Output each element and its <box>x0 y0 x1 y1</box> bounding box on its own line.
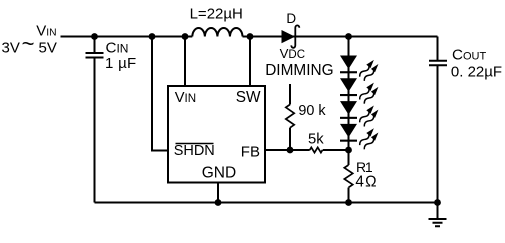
junction node VIN pin <box>182 33 189 40</box>
wire top rail left <box>61 36 193 38</box>
label 5k <box>308 132 324 148</box>
label D <box>286 11 296 26</box>
wire SHDN branch <box>152 37 168 151</box>
inductor L1 <box>192 28 242 36</box>
junction node SHDN branch <box>149 33 156 40</box>
wire VIN pin <box>184 37 186 87</box>
svg-text:GND: GND <box>202 165 236 182</box>
wire R1 top lead <box>348 150 350 165</box>
label R1 <box>356 159 373 175</box>
svg-text:4Ω: 4Ω <box>355 173 376 190</box>
svg-text:5V: 5V <box>39 40 57 57</box>
junction node SW pin <box>247 33 254 40</box>
label L=22uH <box>190 5 243 22</box>
IC U1 box <box>168 86 265 183</box>
wire top rail right <box>243 36 438 38</box>
label GND <box>202 165 236 182</box>
wire SW pin <box>249 37 251 87</box>
label 4ohm <box>355 173 376 190</box>
svg-text:0. 22µF: 0. 22µF <box>451 63 502 80</box>
junction node 90k FB <box>287 147 294 154</box>
LED D4 <box>340 124 357 142</box>
label DIMMING <box>265 62 333 79</box>
resistor R1 <box>344 165 352 187</box>
svg-text:VIN: VIN <box>36 22 56 39</box>
label VDC <box>280 46 305 61</box>
label 1uF <box>105 55 137 72</box>
wire COUT top lead <box>437 37 439 61</box>
diode D schottky bar <box>291 25 299 47</box>
svg-text:CIN: CIN <box>106 40 129 57</box>
LED emission arrows D3 <box>358 104 381 129</box>
label 90k <box>298 103 326 119</box>
label COUT <box>452 47 486 64</box>
label SHDN <box>174 143 215 159</box>
junction node GND rail <box>215 199 222 206</box>
ground <box>429 203 447 227</box>
junction node R1 rail <box>345 199 352 206</box>
label VIN pin <box>175 90 196 106</box>
svg-text:1 µF: 1 µF <box>105 55 137 72</box>
junction node LED bottom <box>345 147 352 154</box>
svg-text:VDC: VDC <box>280 46 305 61</box>
svg-text:L=22µH: L=22µH <box>190 5 243 22</box>
wire FB to LED node <box>323 149 349 151</box>
label SW pin <box>236 89 261 106</box>
resistor 5k <box>310 147 323 152</box>
LED D2 <box>340 78 357 96</box>
label 3V <box>2 40 20 57</box>
svg-text:FB: FB <box>241 143 260 160</box>
wire COUT bottom lead <box>437 66 439 203</box>
svg-text:5k: 5k <box>308 132 324 148</box>
label 0.22uF <box>451 63 502 80</box>
svg-text:VIN: VIN <box>175 90 196 106</box>
diode D triangle <box>282 30 296 43</box>
label VIN input <box>36 22 56 39</box>
LED D1 <box>340 56 357 74</box>
junction node LED top <box>345 33 352 40</box>
LED emission arrows D2 <box>358 81 381 106</box>
LED emission arrows D4 <box>358 127 381 152</box>
wire CIN bottom lead <box>94 59 96 203</box>
svg-text:SW: SW <box>236 89 261 106</box>
label tilde <box>22 31 35 56</box>
LED D3 <box>340 101 357 119</box>
svg-text:3V: 3V <box>2 40 20 57</box>
wire FB pin <box>265 149 310 151</box>
svg-text:D: D <box>286 11 296 26</box>
capacitor C_IN <box>86 53 104 58</box>
wire R1 bottom lead <box>348 188 350 203</box>
wire bottom rail <box>95 202 438 204</box>
label CIN <box>106 40 129 57</box>
svg-text:~: ~ <box>22 31 35 56</box>
label FB <box>241 143 260 160</box>
svg-text:SHDN: SHDN <box>174 143 215 159</box>
resistor 90k <box>286 105 294 128</box>
LED emission arrows D1 <box>358 58 381 83</box>
wire GND pin <box>217 183 219 203</box>
wire DIMMING stub <box>289 84 291 105</box>
wire 90k bottom lead <box>289 128 291 150</box>
junction node COUT rail <box>434 199 441 206</box>
junction node top CIN <box>91 33 98 40</box>
svg-text:90 k: 90 k <box>298 103 326 119</box>
svg-text:COUT: COUT <box>452 47 486 64</box>
wire CIN top lead <box>94 37 96 53</box>
label 5V <box>39 40 57 57</box>
capacitor C_OUT <box>429 61 447 66</box>
wire LED string <box>348 37 350 151</box>
svg-text:DIMMING: DIMMING <box>265 62 333 79</box>
